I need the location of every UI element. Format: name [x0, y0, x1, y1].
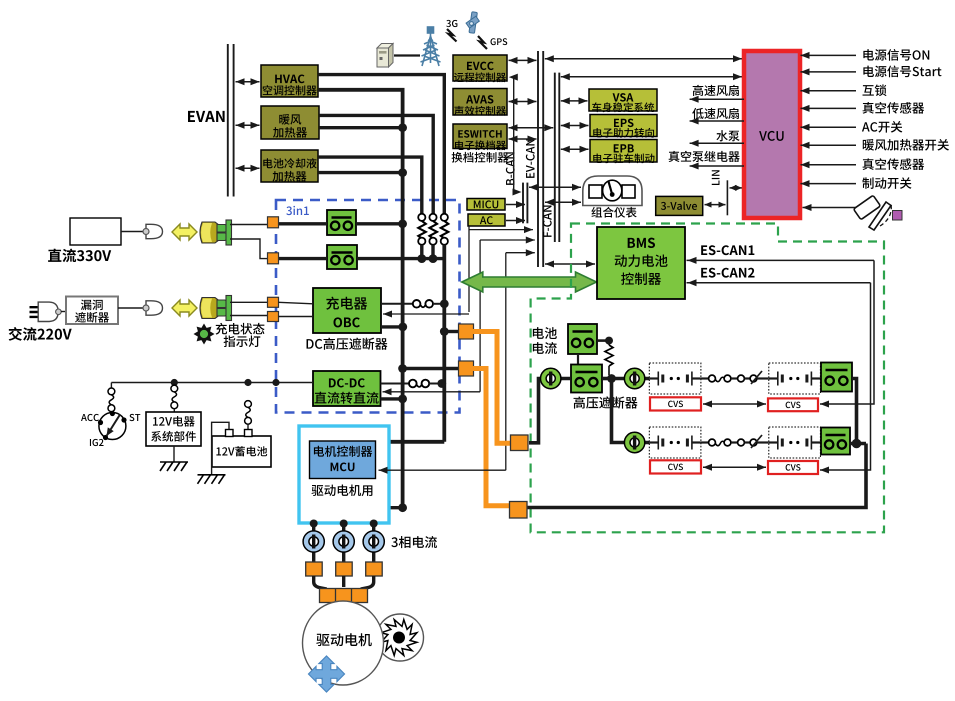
green data arrow [462, 272, 597, 292]
wire coolant-2 [318, 171, 403, 174]
wire to ground1 [173, 446, 175, 462]
box battery coolant heater [261, 150, 318, 182]
yellow arrow 1 [172, 224, 197, 240]
arrow AVAS-EVCAN [509, 101, 537, 103]
VCU output 真空泵继电器 [669, 151, 740, 162]
box MICU [467, 199, 505, 211]
arrow EVCC-EVCAN [509, 59, 537, 61]
arrow into OBC [383, 313, 469, 315]
wire relay1-busA [356, 222, 403, 225]
VCU input 互锁 [863, 84, 887, 96]
orange plug sq C [268, 297, 279, 307]
VCU input 制动开关 [862, 177, 911, 189]
phase connector sq3 [366, 562, 383, 576]
label ES-CAN1 [701, 245, 754, 255]
wire gun2-OBC-1 [230, 301, 268, 303]
wire DC-DC-busA [381, 397, 404, 400]
main contactor 高压遮断器 [571, 365, 602, 393]
wire gun1-sq2 [230, 239, 268, 259]
wire ES-CAN2 [820, 283, 871, 470]
ring sensor battery 2 [625, 369, 644, 388]
wire feeder3 (to MCU) [505, 253, 507, 471]
orange connector sq1 [444, 330, 458, 333]
wire computer-antenna [394, 54, 420, 56]
box AC [468, 214, 505, 226]
arrow FCAN-VSA [561, 100, 588, 102]
VCU output 水泵 [716, 130, 739, 141]
orange plug sq D [268, 312, 279, 322]
orange connector sq2 [459, 361, 474, 376]
label LIN [712, 170, 720, 185]
box OBC charger [313, 288, 381, 333]
fuse chain upper [701, 377, 709, 379]
box 12V电器系统部件 [146, 412, 201, 446]
arrow BCAN-cluster [529, 186, 581, 188]
relay link [577, 354, 579, 365]
12V electrics box feed [171, 385, 178, 392]
blue dashed enclosure DC高压遮断器 [276, 200, 460, 413]
VCU input AC开关 [862, 121, 902, 133]
wire relay2-busB [357, 257, 444, 260]
junction R2 [850, 442, 866, 446]
EV-CAN bus pair [537, 51, 539, 267]
arrow feeder2-EVCAN [480, 239, 535, 241]
box HVAC [261, 65, 318, 97]
wire box-connector2 [118, 307, 145, 309]
label 3相电流 [391, 536, 437, 548]
lightning 3G [447, 29, 457, 42]
orange wire sq1-sq3 [472, 332, 512, 444]
circuit breaker col2 [429, 214, 436, 221]
CVS box 3 [650, 460, 701, 473]
arrow EVAN-coolant [236, 167, 260, 169]
label 充电状态 [216, 323, 265, 335]
arrow LIN-VCU [730, 187, 743, 189]
wire sq3 feed [529, 379, 570, 443]
ground symbol 1 [160, 462, 188, 471]
label 电池电流 [533, 327, 557, 339]
ring sensor battery 1 [541, 369, 560, 388]
wire sqD-OBC [279, 316, 314, 318]
orange connector sq4 [510, 502, 528, 519]
instrument cluster 组合仪表 [583, 176, 642, 206]
EVAN bus (double line) [227, 44, 229, 197]
ignition feed [110, 383, 112, 389]
wire heater-1 [319, 115, 433, 213]
connector plug 1 [146, 224, 163, 238]
wire bottom return [527, 444, 867, 508]
wire HVAC-1 [318, 75, 444, 214]
label B-CAN [506, 152, 515, 185]
blue cross arrow [308, 656, 344, 692]
ring sensor battery 3 [625, 433, 644, 452]
computer icon [377, 44, 393, 68]
charging gun 1 [200, 220, 232, 245]
wire gun2-relay2 [277, 257, 327, 260]
relay contactor 2 [327, 245, 357, 269]
label 高压遮断器 [574, 396, 638, 408]
arrow EVCAN-BMS [545, 263, 595, 265]
arrow EVCAN-VCU [545, 58, 742, 60]
battery current relay [568, 324, 597, 354]
CVS box 2 [768, 398, 818, 411]
orange plug sq A [268, 217, 279, 228]
wire sqC-OBC [279, 302, 314, 304]
label 直流330V [48, 249, 111, 263]
wire EVCC feeder [514, 77, 519, 192]
lightning GPS [478, 36, 487, 49]
box EPS [590, 115, 657, 137]
arrow CVS3-CVS4 [703, 466, 766, 468]
OBC output breaker [381, 303, 413, 305]
arrow FCAN-VCU [561, 76, 742, 78]
wire R1 down [852, 379, 857, 445]
arrow EVAN-heater [236, 124, 260, 126]
battery module 3 [649, 427, 701, 458]
box BMS [597, 227, 685, 299]
antenna tower icon [421, 27, 441, 66]
wire lower string feed [612, 379, 651, 443]
arrow into MCU inner [379, 469, 506, 471]
motor 驱动电机 [303, 601, 384, 685]
circuit breaker col3 [441, 214, 448, 221]
wire LIN [726, 180, 728, 215]
12V supply wire [111, 382, 313, 384]
relay contactor 1 [327, 210, 356, 235]
VCU input 电源信号ON [863, 49, 929, 61]
box 3-Valve [656, 196, 703, 215]
ignition switch [99, 413, 126, 440]
wire feeder2 [479, 240, 481, 392]
wire gun1-sq1 [230, 224, 268, 226]
B-CAN bus pair [522, 183, 524, 224]
yellow arrow 2 [172, 300, 197, 316]
satellite icon [466, 12, 479, 34]
orange wire sq2-sq4 [472, 369, 509, 506]
charging gun 2 [200, 296, 232, 321]
accelerator pedal icon [803, 207, 857, 209]
arrow ESWITCH-EVCAN [509, 138, 537, 140]
12V battery feed [245, 401, 252, 408]
arrow feeder3-EVCAN [506, 252, 535, 254]
box heater [261, 106, 319, 139]
motor terminal block [320, 589, 368, 603]
box AVAS [453, 89, 507, 116]
DC-DC breaker [381, 383, 410, 385]
label EVAN [188, 111, 225, 122]
box DC-DC [313, 371, 381, 406]
circuit breaker col1 [418, 214, 425, 221]
wire plug-breakerbox [61, 311, 66, 313]
fuse chain lower [701, 441, 709, 443]
wire coolant-1 [318, 157, 422, 214]
label EV-CAN [526, 139, 535, 178]
battery module 4 [769, 427, 821, 458]
box DC source [70, 218, 121, 245]
wire ES-CAN1 [820, 260, 874, 404]
label 3in1 [286, 206, 309, 215]
arrow CVS1-CVS2 [703, 403, 766, 405]
arrow MICU-bus [506, 204, 525, 206]
wire relay-junction [597, 339, 609, 342]
phase connector sq1 [306, 562, 323, 576]
label 3G [446, 20, 457, 27]
green dashed enclosure [531, 224, 884, 533]
VCU input 暖风加热器开关 [863, 139, 949, 151]
box 12V蓄电池 [212, 436, 271, 467]
phase leads [314, 576, 327, 589]
VCU output 高速风扇 [693, 85, 739, 96]
wire AC to OBC feeder [468, 226, 470, 312]
label shift controller [452, 152, 509, 163]
orange plug sq B [268, 253, 279, 264]
arrow FCAN-EPS [561, 125, 589, 127]
wire busA-sq2 [403, 367, 459, 370]
orange connector sq3 [511, 435, 529, 451]
arrow feeder1-EVCAN [469, 229, 533, 231]
wire box-connector1 [121, 231, 145, 233]
wire heater-2 [319, 126, 403, 129]
CVS box 1 [650, 397, 701, 410]
label DC高压遮断器 [307, 338, 388, 350]
wire gun2-OBC-2 [230, 315, 268, 317]
wire relay-dot2 [602, 377, 612, 381]
phase current sensor 3 [364, 532, 384, 552]
arrow 3valve-LIN [705, 204, 726, 206]
arrow into DC-DC [383, 391, 481, 393]
charge status lamp gear [194, 324, 215, 345]
box VSA [589, 89, 657, 111]
label F-CAN [543, 205, 552, 236]
box EVCC [453, 55, 507, 81]
CVS box 4 [768, 461, 818, 474]
wire bus B to MCU [386, 440, 444, 444]
VCU output 低速风扇 [692, 108, 739, 119]
wire HVAC-2 (bus A) [318, 90, 403, 508]
ground symbol 2 [198, 475, 226, 484]
VCU input 电源信号Start [863, 66, 941, 78]
battery module 2 [769, 363, 821, 394]
phase current sensor 2 [334, 532, 354, 552]
VCU input 真空传感器 [863, 102, 925, 114]
battery module 1 [649, 363, 701, 394]
wire to ring2 [612, 377, 651, 381]
wire gun1-relay1 [279, 222, 327, 225]
gear wheel [377, 614, 424, 661]
label 驱动电机用 [312, 484, 373, 496]
MCU enclosure [299, 426, 389, 523]
wire bus A to MCU [386, 506, 403, 509]
phase current sensor 1 [304, 532, 324, 552]
VCU box [744, 51, 800, 218]
VCU input 真空传感器 [863, 158, 925, 170]
phase connector sq2 [336, 562, 353, 576]
wire OBC-busA [381, 325, 403, 328]
AC socket plug icon [30, 307, 39, 317]
label GPS [491, 38, 508, 45]
arrow EVCAN-cluster [545, 201, 581, 203]
connector plug 2 [146, 301, 163, 315]
resistor [608, 341, 610, 345]
wire battery to ground2 [212, 422, 229, 475]
MCU inner box [310, 441, 376, 479]
box EPB [590, 140, 657, 163]
arrow AC-bus [506, 220, 525, 222]
F-CAN bus pair [554, 73, 556, 242]
box 漏洞遮断器 [66, 297, 118, 325]
MCU phase wires [312, 523, 315, 568]
label 指示灯 [224, 335, 261, 347]
arrow FCAN-EPB [561, 148, 589, 150]
arrow EVAN-HVAC [236, 81, 260, 83]
box ESWITCH [453, 124, 507, 149]
label 交流220V [9, 327, 72, 341]
relay R2 [821, 428, 850, 455]
relay R1 [821, 363, 852, 392]
arrow ESWITCH-FCAN [509, 127, 554, 129]
label ES-CAN2 [701, 268, 754, 278]
